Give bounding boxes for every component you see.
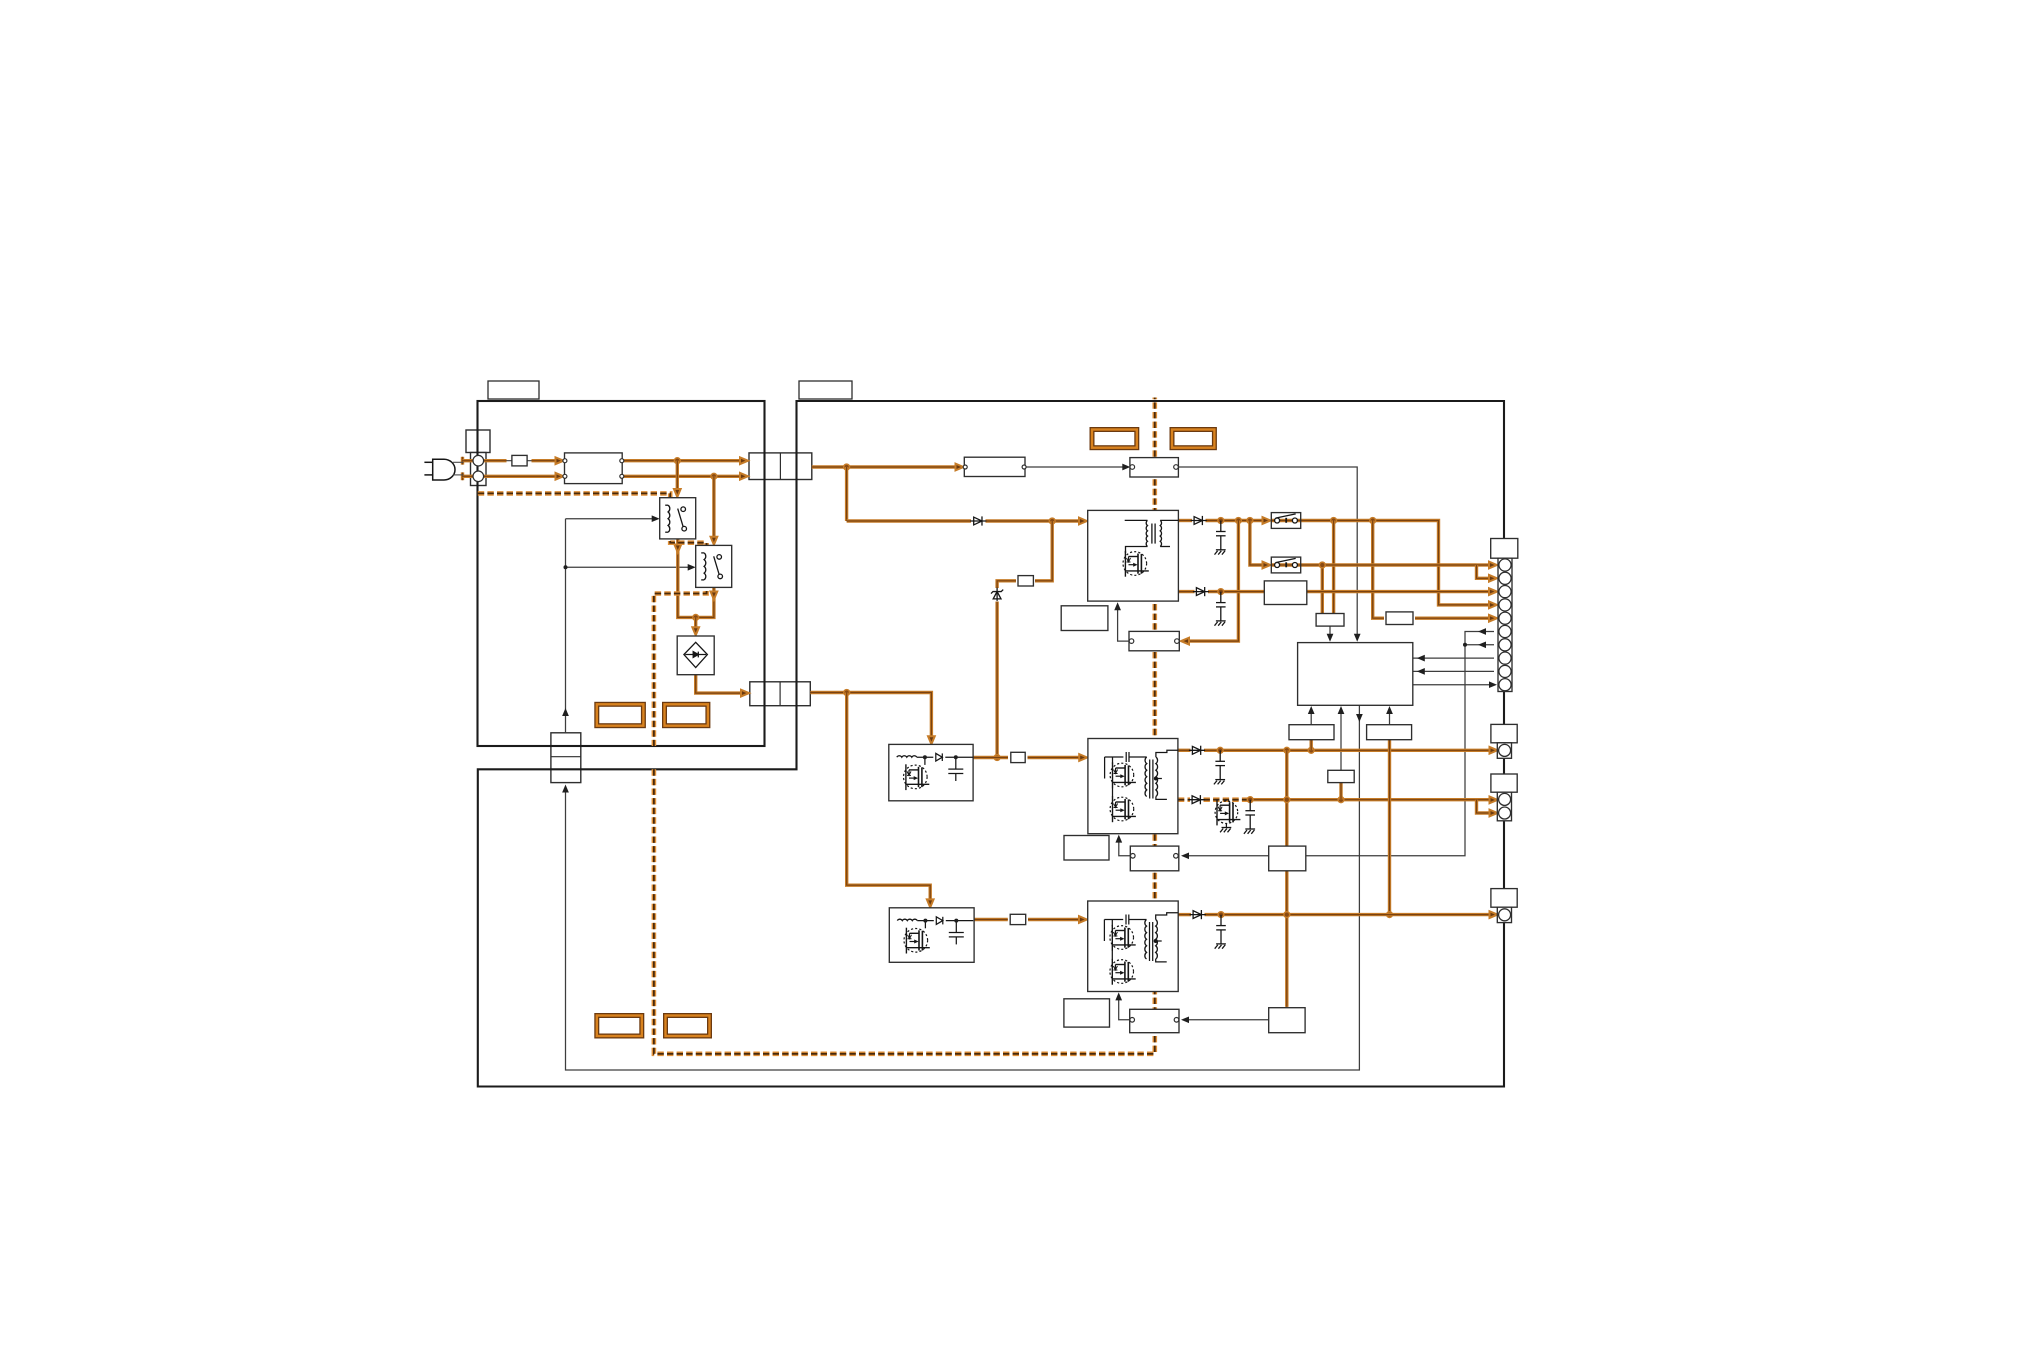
relay drive wire to relay RY1 [566,518,656,520]
junction long rail on standby bus [1284,797,1290,803]
arrow into pin1 [1489,562,1497,569]
block R3 [1367,725,1412,740]
fuse F3 [1011,752,1025,762]
arrow into pin3 [1489,588,1497,595]
diode D4 [1193,587,1209,596]
connector CND pin [1499,909,1511,921]
junction aux and converter U1 output [994,755,1000,761]
inline connector CN6 [1129,631,1179,650]
output connector CNB pin housing [1497,743,1511,759]
T1 lower output to diode D4 [1178,590,1194,593]
junction cap C3 [1217,747,1223,753]
IC output wire to pin10 [1413,684,1493,686]
converter T3 MOSFET lower [1110,959,1136,985]
HV bus diode D1 to converter T1 [986,519,1083,522]
junction block R1 stub [1308,747,1314,753]
diode D7 [1190,910,1206,919]
label box IC2 [1064,836,1109,861]
junction block R2 stub [1338,797,1344,803]
arrow into IC right edge (pin8) [1417,655,1425,662]
relay RY2 contact [714,555,723,579]
long rail to CN8 feedback block [1285,750,1288,1007]
arrow below relay RY1 [674,545,681,553]
CN7 pin 2 [1174,854,1179,859]
junction relay drive [564,565,568,569]
output connector CND header [1491,889,1517,908]
buck converter U2 [889,908,974,963]
connector CNB pin [1499,744,1511,756]
arrow into relay RY1 [674,489,681,497]
series block R4 [1264,581,1307,605]
AC sense wire from CN5 to control IC [1178,467,1357,638]
bus to pin1 [1477,563,1493,566]
main converter T1 [1088,510,1179,601]
neutral stub at inlet [461,472,464,480]
inlet pin L [473,455,484,466]
bridge rectifier diamond [684,642,708,667]
block R1 stub [1309,740,1312,751]
block R1 [1289,725,1334,740]
sync-rect MOSFET Q2 [1225,800,1227,801]
junction HV bus aux branch [1049,518,1055,524]
arrow down from control IC [1356,714,1363,722]
arrow into pin5 [1489,615,1497,622]
arrow into CN4 bottom [562,785,569,793]
switch SW2 [1271,557,1300,573]
aux branch to zener D2 [997,581,1016,588]
AC sense wire from line filter FL2 to CN5 [1024,466,1127,468]
label box IC3 [1064,999,1110,1027]
capacitor C4 [1245,800,1255,829]
inline connector CN8 [1130,1009,1179,1032]
capacitor C3 [1215,750,1225,779]
sense wire pin 7 [1465,644,1494,646]
sense block R6 [1316,614,1344,627]
orange label frame E [597,1016,642,1037]
junction pin5 branch [1370,518,1376,524]
arrow into bridge rectifier [692,627,699,635]
junction long feedback rail [1284,747,1290,753]
buck U1 output to fuse F3 [973,756,1008,759]
junction sense drop A [1331,518,1337,524]
FL1 pin 1 [563,459,567,463]
resonant converter T2 [1088,739,1178,834]
converter T2 half-bridge and transformer [1105,750,1178,799]
AC inlet connector CN1 pin housing [471,453,487,486]
T1 upper output to diode D3 [1178,519,1192,522]
wire from block R3 to IC [1389,710,1391,725]
output connector CNC header [1491,774,1517,792]
sense drop wire A [1332,521,1335,614]
T2 upper output bus to connector CNB [1204,749,1494,752]
arrow into CNC pin2 [1490,810,1498,817]
sense bus from output pins 6 [1306,632,1494,856]
wire through switch SW2 [1271,563,1300,566]
buck converter U1 inductor [897,756,917,757]
bus to CNC pin1 [1477,798,1494,801]
live wire pin to fuse F1 [484,459,507,462]
voltage sense wire into IC [1329,626,1331,637]
live wire FL1 to CN2 [622,459,742,462]
FL1 pin 2 [563,474,567,478]
switch SW1 [1271,513,1300,529]
AC line routing trace (dashed, main board) [654,398,1155,1054]
buck converter U1 diode [936,753,943,761]
wire through switch SW1 [1271,519,1300,522]
output connector CNC pin housing [1497,792,1511,821]
aux branch to fuse F2 [1035,521,1052,581]
feedback wire into CN7 (T2) [1185,855,1269,857]
board-to-board connector CN2 divider [779,453,781,480]
output connector CNA pins [1499,559,1511,691]
HV bus to diode D1 [847,519,971,522]
feedback block FB2 [1269,846,1306,871]
fuse F4 [1010,914,1025,924]
arrow into IC right edge (pin9) [1417,668,1425,675]
inline connector CN5 [1130,458,1179,477]
converter T3 half-bridge and transformer [1104,913,1177,962]
junction neutral to relay RY2 [711,473,717,479]
AC wire CN2 to filter FL2 [812,465,958,468]
gate drive wire T1 [1118,607,1132,642]
T2 lower output dashed after diode [1204,797,1251,802]
relay drive trunk wire from CN4 [565,519,567,733]
arrow into converter T1 [1079,518,1087,525]
arrow into converter T1 block [1114,602,1121,610]
CN6 pin 1 [1129,639,1134,644]
junction live to relay RY1 [674,458,680,464]
T1 upper output diode to switch SW1 [1206,519,1267,522]
relay drive wire to relay RY2 [566,566,692,568]
board-to-board connector CN2 (left half) [749,453,812,480]
line filter FL1 [565,453,623,484]
fuse F3 to converter T2 [1028,756,1083,759]
CN8 pin 2 [1174,1018,1179,1023]
arrow into CNC pin1 [1490,797,1498,804]
CN7 pin 1 [1131,854,1136,859]
live wire fuse F1 to filter FL1 [532,459,557,462]
output connector CNA header [1491,539,1518,559]
arrow into CN3 [741,690,749,697]
neutral wire inlet to pin [463,475,474,478]
fuse F4 to converter T3 [1028,918,1082,921]
arrow into CN7 right pin [1181,852,1189,859]
AC line routing trace (dashed, AC section) [478,493,707,746]
buck converter U2 MOSFET [904,928,930,954]
live stub at inlet [461,457,464,465]
orange label frame C [1092,430,1137,448]
wire bridge to CN3 [696,675,743,693]
arrow into filter FL2 [956,464,964,471]
arrow into relay RY2 coil [688,564,696,571]
feedback wire to CN6 of T1 [1185,521,1238,642]
arrow into CN2 (live) [740,457,748,464]
wire pin8 to IC [1413,657,1494,659]
junction long rail on T3 bus [1284,912,1290,918]
arrow into control IC top [1354,634,1361,642]
converter T2 MOSFET lower [1110,796,1136,822]
title box of AC input section [488,381,539,399]
relay RY2 coil [701,552,704,554]
switch SW1 contact [1275,514,1298,523]
converter T1 MOSFET Q1 [1123,551,1149,577]
series block R5 to pin5 [1415,617,1492,620]
sense drop wire B [1321,565,1324,614]
relay RY1 [660,498,696,539]
HV bus drop [845,467,848,521]
junction cap C5 [1218,912,1224,918]
CN5 pin 1 [1130,465,1135,470]
junction relay outputs [693,615,699,621]
wire to relay RY1 [676,461,679,492]
aux branch down to T2 feed [995,602,998,758]
FL1 pin 3 [620,459,624,463]
live wire inlet to pin [463,459,474,462]
wire from block R1 to IC [1310,710,1312,725]
T2 lower output dashed to diode D6 [1178,797,1190,802]
arrow into pin2 [1489,575,1497,582]
arrow on pin6 wire [1478,628,1486,635]
zener diode D2 [991,588,1003,601]
wire from block R2 to IC [1340,710,1342,770]
connector CNC pins [1499,793,1511,805]
remote-signal connector CN4 [551,733,581,783]
arrow into converter T3 block [1115,992,1122,1000]
junction cap C2 [1218,589,1224,595]
switch SW2 contact [1275,558,1298,567]
diode D5 [1189,746,1205,755]
arrow into converter T3 [1079,916,1087,923]
inline connector CN7 [1130,846,1179,871]
capacitor C5 [1216,915,1226,944]
AC inlet connector CN1 upper box [466,430,490,453]
orange label frame B [665,704,708,725]
wire into bridge rectifier [694,617,697,630]
arrow into control IC top (sense) [1327,634,1334,642]
junction cap C1 [1218,518,1224,524]
orange label frame F [666,1016,710,1037]
arrow into connector CND pin [1490,911,1498,918]
label box IC1 [1061,606,1108,631]
buck converter U2 inductor [897,919,917,920]
converter T3 MOSFET upper [1110,925,1136,951]
feedback block FB3 [1269,1008,1305,1033]
DC link connector CN3 (left half) [750,682,811,706]
wire pin9 to IC [1413,670,1494,672]
arrow into buck converter U1 [928,736,935,744]
FL1 pin 4 [620,474,624,478]
arrow into switch SW2 [1263,562,1271,569]
arrow into filter FL1 (live) [556,457,564,464]
DC link wire to buck U2 [847,693,931,903]
orange label frame A [597,704,644,725]
arrow on pin7 wire [1478,641,1486,648]
buck U2 output to fuse F4 [974,918,1008,921]
CN8 pin 1 [1130,1018,1135,1023]
arrow into buck converter U2 [927,899,934,907]
junction DC link to buck U2 [844,690,850,696]
arrow into relay RY2 [711,537,718,545]
junction feedback branch T1 [1236,518,1242,524]
junction sense drop B [1319,562,1325,568]
arrow into IC bottom (R3) [1386,706,1393,714]
arrow below relay RY2 [711,592,718,600]
arrow into relay RY1 coil [652,515,660,522]
FL2 pin 2 [1022,465,1026,469]
converter T2 MOSFET upper [1110,762,1136,788]
remote-signal connector CN4 divider [551,756,581,758]
buck converter U1 [889,744,973,800]
arrow up on relay drive trunk [562,708,569,716]
arrow into CN8 right pin [1181,1016,1189,1023]
junction HV takeoff [844,464,850,470]
arrow into converter T2 block [1115,835,1122,843]
branch to switch SW2 [1250,521,1267,566]
AC inlet wires [453,462,464,475]
relay RY1 contact [678,507,687,531]
inlet pin N [473,471,484,482]
line filter FL2 [964,457,1025,476]
gate drive wire T2 [1119,839,1133,856]
CN5 pin 2 [1174,465,1179,470]
arrow into pin10 [1489,681,1497,688]
output connector CNA body [1498,558,1512,691]
arrow into IC bottom (R2) [1338,706,1345,714]
fuse F2 [1018,576,1033,586]
T1 lower output bus to pin3 [1208,590,1492,593]
standby bus to connector CNC [1250,798,1476,801]
T2 upper output to diode D5 [1178,749,1190,752]
buck converter U2 diode [936,917,943,925]
T3 output to diode D7 [1178,913,1191,916]
fuse wire under F1 [484,460,565,462]
block R3 stub long [1388,740,1391,915]
branch to series block R5 [1373,521,1384,619]
block R2 stub [1339,783,1342,800]
gate drive wire T3 [1119,997,1133,1020]
bus jog to pin2 [1477,565,1493,578]
remote on/off loop wire (IC to CN4) [566,705,1360,1070]
diode D6 [1189,795,1205,804]
feedback wire into CN8 (T3) [1185,1019,1269,1021]
switch SW1 output to pin4 [1301,521,1492,605]
output connector CND pin housing [1497,907,1511,922]
junction switch SW2 branch [1247,518,1253,524]
resonant converter T3 [1088,901,1179,992]
T3 output bus to connector CND [1205,913,1494,916]
switch SW2 output bus [1301,563,1477,566]
relay RY2 [696,545,732,587]
junction sense bus [1463,643,1467,647]
bridge rectifier BR1 [677,636,714,675]
ground of Q2 [1220,828,1231,833]
AC input section enclosure [478,401,765,746]
main power-supply board outline [478,401,1504,1087]
title box of main board [799,381,852,399]
DC link wire CN3 to buck U1 [810,693,931,739]
arrow into pin4 [1489,602,1497,609]
relay RY1 coil [665,504,668,506]
diode D3 [1191,516,1207,525]
fuse F1 [512,455,527,466]
arrow into CN6 right pin [1181,638,1189,645]
DC link connector CN3 divider [779,682,781,706]
capacitor C2 [1216,592,1226,621]
control IC U3 [1298,643,1413,706]
FL2 pin 1 [963,465,967,469]
orange label frame D [1172,430,1214,448]
junction cap C4 [1247,797,1253,803]
capacitor C1 [1216,521,1226,550]
buck converter U1 circuit [917,757,973,781]
output connector CNB header [1491,724,1517,742]
converter T1 transformer [1125,520,1179,553]
block R2 [1328,770,1354,782]
buck converter U1 MOSFET [904,764,930,790]
bus jog to CNC pin2 [1477,800,1495,813]
diode D1 [970,516,986,525]
CN6 pin 2 [1175,639,1180,644]
arrow into connector CNB pin [1490,747,1498,754]
relay output wires [678,539,714,618]
arrow into connector CN5 [1122,464,1130,471]
neutral wire pin to filter FL1 [484,475,557,478]
arrow into CN2 (neutral) [740,473,748,480]
arrow into filter FL1 (neutral) [556,473,564,480]
AC plug [424,459,455,480]
arrow into switch SW1 [1263,517,1271,524]
wire to relay RY2 [712,476,715,539]
buck converter U2 circuit [917,921,973,945]
junction block R3 on T3 bus [1387,912,1393,918]
series block R5 [1386,612,1413,625]
arrow into converter T2 [1079,754,1087,761]
arrow into IC bottom (R1) [1308,706,1315,714]
neutral wire FL1 to CN2 [622,475,742,478]
